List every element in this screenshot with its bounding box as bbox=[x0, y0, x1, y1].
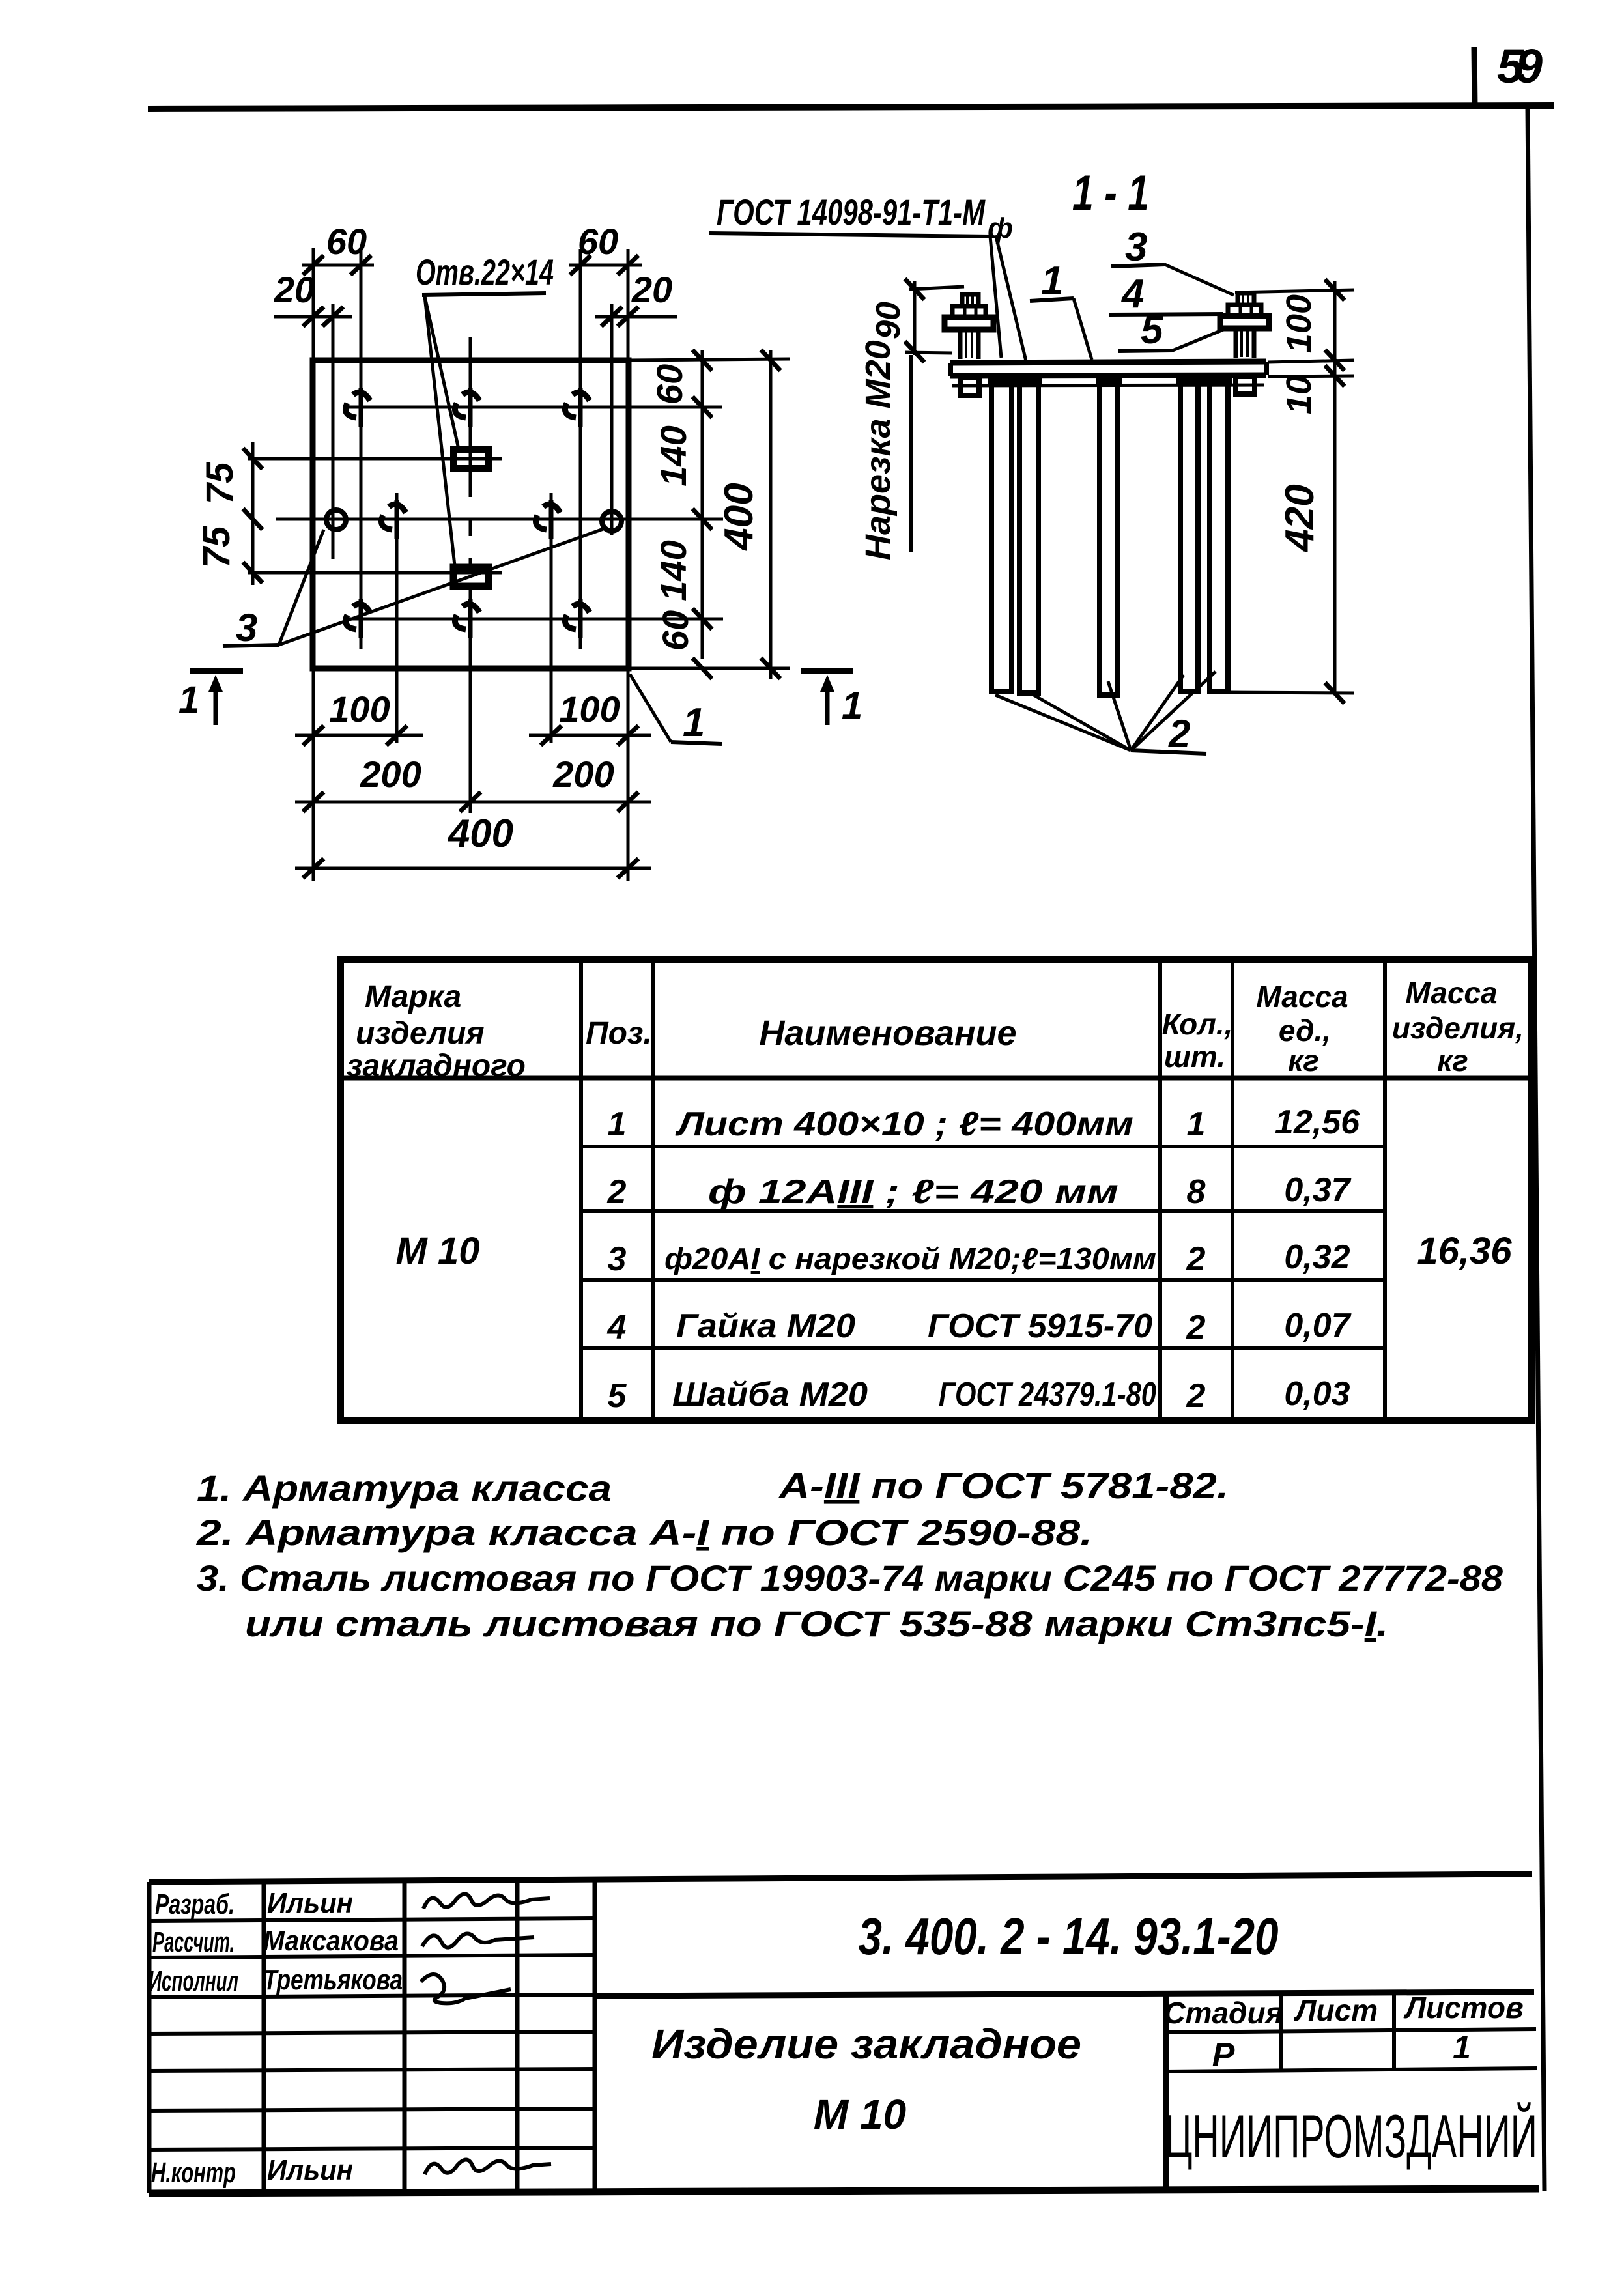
centerline column x=722 bbox=[469, 337, 472, 480]
svg-text:Рассчит.: Рассчит. bbox=[152, 1926, 235, 1958]
svg-text:2: 2 bbox=[1186, 1377, 1206, 1415]
table column lines bbox=[581, 960, 1385, 1421]
bolt right (pos 3) bbox=[1220, 293, 1269, 394]
row 3: f20 A-I s narezkoy bbox=[608, 1238, 1350, 1278]
slot hole 2 bbox=[453, 567, 489, 586]
svg-text:75: 75 bbox=[199, 462, 241, 504]
svg-text:Н.контр: Н.контр bbox=[151, 2157, 236, 2189]
svg-text:ГОСТ 5915-70: ГОСТ 5915-70 bbox=[928, 1307, 1152, 1345]
svg-text:1: 1 bbox=[178, 679, 199, 721]
svg-text:1: 1 bbox=[1041, 259, 1063, 304]
svg-text:Нарезка М20: Нарезка М20 bbox=[859, 340, 898, 560]
svg-text:1: 1 bbox=[683, 700, 705, 745]
svg-text:ГОСТ 14098-91-Т1-М: ГОСТ 14098-91-Т1-М bbox=[717, 192, 986, 233]
svg-text:1. Арматура класса: 1. Арматура класса bbox=[197, 1468, 612, 1509]
section mark left bbox=[178, 671, 243, 725]
svg-text:Разраб.: Разраб. bbox=[155, 1888, 235, 1920]
svg-text:8: 8 bbox=[1187, 1173, 1206, 1211]
bolt left (pos 3) bbox=[945, 294, 993, 395]
svg-text:59: 59 bbox=[1497, 39, 1543, 93]
leader 4 (section nut) bbox=[1109, 272, 1223, 317]
rebar 3 (section) bbox=[1100, 384, 1117, 695]
centerline column x=511 bbox=[332, 304, 335, 559]
top border line bbox=[148, 106, 1554, 109]
extension plate bottom right bbox=[628, 667, 790, 670]
row 3 centerline bbox=[344, 618, 723, 621]
svg-text:Ильин: Ильин bbox=[267, 1887, 353, 1919]
dimension 90 left (rotated) bbox=[870, 279, 964, 362]
svg-text:1: 1 bbox=[1187, 1105, 1206, 1143]
svg-text:Наименование: Наименование bbox=[759, 1014, 1016, 1053]
slot 1 centerline bbox=[248, 457, 502, 461]
header Massa ed. kg bbox=[1256, 980, 1348, 1077]
svg-text:100: 100 bbox=[559, 689, 620, 730]
svg-text:Марка: Марка bbox=[365, 980, 461, 1014]
svg-text:4: 4 bbox=[607, 1309, 627, 1346]
header Marka izdeliya zakladnogo bbox=[347, 980, 526, 1083]
svg-text:140: 140 bbox=[653, 425, 694, 486]
dimension 20 top-right bbox=[595, 269, 677, 326]
svg-text:60: 60 bbox=[326, 221, 367, 262]
stadia list listov grid bbox=[1166, 1994, 1537, 2071]
svg-text:20: 20 bbox=[631, 269, 672, 310]
svg-text:М 10: М 10 bbox=[814, 2091, 906, 2138]
weld blobs at rebar tops bbox=[988, 377, 1232, 386]
leader Otv.22x14 bbox=[416, 251, 554, 565]
extension plate top right bbox=[628, 359, 790, 360]
svg-text:кг: кг bbox=[1437, 1044, 1468, 1077]
anchor symbol row1 right bbox=[565, 388, 590, 427]
dimension 75/75 left bbox=[195, 442, 263, 585]
rebar 4 (section) bbox=[1180, 384, 1198, 692]
title block verticals left part bbox=[149, 1879, 595, 2193]
weld label GOST 14098-91-T1-Mf bbox=[709, 192, 1026, 361]
anchor symbol row3 mid bbox=[455, 599, 479, 638]
centerline column x=609 bbox=[395, 493, 399, 743]
rebar 2 (section) bbox=[1019, 384, 1038, 693]
svg-text:Поз.: Поз. bbox=[586, 1016, 652, 1051]
centerline column x=939 bbox=[610, 304, 614, 535]
svg-text:Исполнил: Исполнил bbox=[149, 1965, 238, 1997]
svg-text:200: 200 bbox=[552, 754, 614, 795]
svg-text:ГОСТ 24379.1-80: ГОСТ 24379.1-80 bbox=[939, 1376, 1156, 1414]
anchor symbol row2 left bbox=[381, 500, 406, 539]
svg-text:75: 75 bbox=[195, 526, 238, 568]
svg-text:Ильин: Ильин bbox=[267, 2154, 353, 2186]
svg-text:изделия,: изделия, bbox=[1392, 1011, 1524, 1045]
centerline column x=846 bbox=[550, 493, 553, 743]
svg-text:0,07: 0,07 bbox=[1284, 1307, 1351, 1345]
dimension 400 bottom bbox=[295, 812, 651, 878]
svg-text:Стадия: Стадия bbox=[1163, 1996, 1283, 2030]
extension line plate left top bbox=[312, 248, 315, 360]
leader 1 (plan plate) bbox=[630, 674, 722, 745]
svg-text:1: 1 bbox=[608, 1105, 627, 1143]
anchor symbol row3 right bbox=[565, 599, 590, 638]
svg-text:10: 10 bbox=[1279, 375, 1318, 414]
dimension 200 bottom-right bbox=[449, 754, 651, 812]
dimension 100/10/420 right bbox=[1229, 279, 1354, 704]
title block frame top bbox=[149, 1874, 1532, 1882]
right border line bbox=[1528, 107, 1545, 2191]
svg-text:шт.: шт. bbox=[1164, 1040, 1225, 1074]
svg-text:ф20АI с нарезкой М20;ℓ=130мм: ф20АI с нарезкой М20;ℓ=130мм bbox=[664, 1242, 1156, 1275]
extension plate left bottom bbox=[312, 668, 315, 881]
svg-text:0,37: 0,37 bbox=[1284, 1171, 1351, 1209]
svg-text:420: 420 bbox=[1277, 484, 1322, 552]
signature Tretyakova bbox=[421, 1974, 511, 2003]
dimension 200 bottom-left bbox=[295, 754, 495, 812]
svg-text:200: 200 bbox=[360, 754, 421, 795]
svg-text:60: 60 bbox=[578, 221, 618, 262]
vertical divider x=1790 bbox=[1163, 1994, 1169, 2190]
leader 5 (section washer) bbox=[1118, 307, 1223, 352]
leader 3 (section bolt) bbox=[1111, 225, 1234, 295]
row 5: Shaiba M20 bbox=[608, 1375, 1350, 1415]
bolt hole circle right bbox=[602, 511, 621, 531]
svg-text:400: 400 bbox=[717, 483, 762, 551]
anchor symbol row1 left bbox=[345, 388, 370, 427]
svg-text:140: 140 bbox=[653, 540, 694, 601]
svg-text:Кол.,: Кол., bbox=[1162, 1007, 1233, 1041]
svg-text:2. Арматура класса А-I по ГОСТ: 2. Арматура класса А-I по ГОСТ 2590-88. bbox=[196, 1512, 1092, 1553]
header Massa izdeliya kg bbox=[1392, 976, 1524, 1077]
extension plate right bottom bbox=[627, 668, 630, 881]
svg-text:Отв.22×14: Отв.22×14 bbox=[416, 251, 554, 292]
section mark right bbox=[801, 671, 862, 727]
svg-text:100: 100 bbox=[1279, 294, 1318, 353]
svg-text:Листов: Листов bbox=[1403, 1991, 1523, 2025]
svg-text:1: 1 bbox=[1453, 2029, 1471, 2066]
svg-text:Шайба М20: Шайба М20 bbox=[672, 1376, 868, 1414]
svg-text:2: 2 bbox=[1186, 1240, 1206, 1278]
leader 3 (plan) bbox=[223, 529, 603, 649]
svg-text:Третьякова: Третьякова bbox=[263, 1964, 403, 1996]
bolt hole circle left bbox=[326, 510, 346, 530]
svg-text:3: 3 bbox=[1125, 225, 1147, 270]
svg-text:Гайка М20: Гайка М20 bbox=[676, 1307, 855, 1345]
svg-text:или сталь листовая по ГОСТ 535: или сталь листовая по ГОСТ 535-88 марки … bbox=[245, 1603, 1388, 1644]
page number tick bbox=[1474, 47, 1475, 107]
dimension 60 top-left bbox=[302, 221, 374, 275]
svg-text:Масса: Масса bbox=[1256, 980, 1348, 1014]
svg-text:5: 5 bbox=[1141, 307, 1164, 352]
extension plate right top bbox=[627, 249, 630, 360]
anchor symbol row2 right bbox=[535, 500, 560, 539]
anchor symbol row1 mid bbox=[455, 388, 479, 427]
svg-text:Р: Р bbox=[1212, 2036, 1235, 2074]
signature Ilyin bbox=[423, 1894, 550, 1909]
svg-text:3. Сталь листовая по ГОСТ 1990: 3. Сталь листовая по ГОСТ 19903-74 марки… bbox=[197, 1558, 1503, 1599]
svg-text:0,03: 0,03 bbox=[1284, 1375, 1350, 1413]
svg-text:16,36: 16,36 bbox=[1417, 1230, 1512, 1272]
svg-text:5: 5 bbox=[608, 1377, 627, 1415]
leader 1 (section plate) bbox=[1030, 259, 1092, 360]
svg-text:2: 2 bbox=[1186, 1309, 1206, 1346]
row 4: Gaika M20 bbox=[607, 1307, 1352, 1346]
header Kol. sht. bbox=[1162, 1007, 1233, 1074]
svg-text:ф 12АIII ; ℓ= 420 мм: ф 12АIII ; ℓ= 420 мм bbox=[708, 1173, 1118, 1211]
svg-text:20: 20 bbox=[274, 269, 315, 310]
row 2 centerline bbox=[276, 518, 723, 521]
row 1 centerline bbox=[344, 406, 722, 409]
svg-text:ЦНИИПРОМЗДАНИЙ: ЦНИИПРОМЗДАНИЙ bbox=[1165, 2101, 1537, 2170]
table frame bbox=[341, 960, 1531, 1421]
rebar 5 (section) bbox=[1210, 384, 1228, 692]
svg-text:3. 400. 2 - 14. 93.1-20: 3. 400. 2 - 14. 93.1-20 bbox=[859, 1907, 1279, 1965]
svg-text:изделия: изделия bbox=[356, 1016, 485, 1051]
plate (section) bbox=[950, 362, 1266, 386]
dimension 100 bottom-left bbox=[295, 689, 423, 745]
anchor symbol row3 left bbox=[345, 599, 370, 638]
plate outline (plan) bbox=[313, 360, 629, 668]
svg-text:1 - 1: 1 - 1 bbox=[1072, 165, 1149, 221]
title block bottom bbox=[149, 2189, 1539, 2193]
svg-text:Изделие закладное: Изделие закладное bbox=[651, 2021, 1081, 2068]
svg-text:2: 2 bbox=[1168, 712, 1190, 756]
svg-text:3: 3 bbox=[608, 1240, 627, 1278]
svg-text:0,32: 0,32 bbox=[1284, 1238, 1350, 1276]
centerline column x=891 bbox=[579, 249, 582, 649]
svg-text:60: 60 bbox=[655, 610, 696, 651]
svg-text:100: 100 bbox=[329, 689, 390, 730]
dimension 400 right bbox=[717, 350, 780, 679]
slot 2 centerline bbox=[248, 571, 502, 575]
svg-text:60: 60 bbox=[649, 364, 690, 405]
svg-text:Масса: Масса bbox=[1405, 976, 1497, 1010]
svg-text:Лист 400×10 ; ℓ= 400мм: Лист 400×10 ; ℓ= 400мм bbox=[674, 1105, 1133, 1143]
svg-text:90: 90 bbox=[870, 302, 907, 339]
svg-text:Лист: Лист bbox=[1294, 1993, 1378, 2027]
svg-text:М 10: М 10 bbox=[396, 1230, 480, 1272]
svg-text:Максакова: Максакова bbox=[263, 1925, 399, 1957]
divider under doc number bbox=[595, 1992, 1534, 1996]
signature Maksakova bbox=[422, 1933, 534, 1947]
dimension 60 top-right bbox=[569, 221, 642, 275]
row 2: f12 A-III bbox=[607, 1171, 1352, 1211]
svg-text:2: 2 bbox=[607, 1173, 627, 1211]
centerline column x=722 dash bbox=[469, 480, 472, 566]
title block left rows bbox=[149, 1918, 595, 2150]
centerline column x=554 bbox=[360, 249, 363, 649]
svg-text:кг: кг bbox=[1288, 1044, 1319, 1077]
leader 2 (section rebars) bbox=[995, 672, 1216, 756]
svg-text:3: 3 bbox=[236, 606, 257, 649]
dimension 100 bottom-right bbox=[529, 689, 651, 745]
svg-text:1: 1 bbox=[842, 685, 862, 727]
svg-text:12,56: 12,56 bbox=[1275, 1103, 1360, 1141]
dimension 60/140/140/60 right bbox=[649, 350, 712, 679]
thread label Narezka M20 (rotated) bbox=[859, 340, 911, 560]
table header line bbox=[341, 1076, 1531, 1081]
slot hole 1 bbox=[453, 449, 489, 468]
dimension 20 top-left bbox=[274, 269, 352, 326]
rebar 1 (section) bbox=[991, 384, 1012, 692]
svg-text:закладного: закладного bbox=[347, 1049, 526, 1083]
row 1: List 400x10 bbox=[608, 1103, 1361, 1143]
svg-text:ед.,: ед., bbox=[1279, 1014, 1331, 1047]
table row lines bbox=[581, 1146, 1385, 1348]
signature Ilyin 2 bbox=[425, 2159, 551, 2174]
svg-text:А-III по ГОСТ 5781-82.: А-III по ГОСТ 5781-82. bbox=[778, 1465, 1229, 1506]
svg-text:400: 400 bbox=[448, 812, 513, 855]
